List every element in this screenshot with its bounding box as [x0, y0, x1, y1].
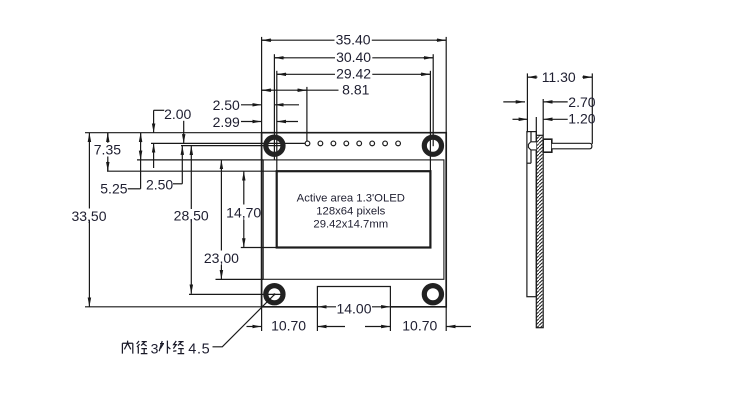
svg-text:23,00: 23,00: [204, 250, 239, 266]
side pin back tab: [528, 142, 536, 150]
wire glass-bottom ext left: [216, 278, 264, 280]
wire side-pcb-back ext up: [542, 99, 544, 135]
svg-text:128x64 pixels: 128x64 pixels: [316, 206, 385, 218]
dimension 14.00: [317, 300, 390, 316]
side pin: [552, 143, 592, 149]
glyph nei: [122, 341, 132, 354]
wire pcb-right ext up: [445, 37, 447, 133]
side display inner edge: [530, 132, 532, 164]
wire hole-left ext up: [273, 54, 275, 160]
dimension 2.50 left: [146, 146, 182, 193]
wire active-left ext up: [276, 71, 278, 171]
wire side-pin-tip ext up: [591, 73, 593, 143]
dimension 8.81: [262, 82, 370, 98]
svg-text:2.50: 2.50: [213, 97, 240, 113]
wire slot-left ext down: [316, 307, 318, 331]
dimension 10.70 right: [365, 318, 471, 334]
bottom-left hole center mark: [273, 293, 275, 295]
wire pcb-top ext left: [85, 132, 262, 134]
svg-text:10.70: 10.70: [402, 318, 437, 334]
wire pcb-left ext up: [261, 37, 263, 133]
glass panel outline: [263, 160, 444, 279]
svg-text:14.00: 14.00: [336, 300, 371, 316]
wire active-bottom ext left: [241, 247, 277, 249]
mounting hole top-right: [424, 137, 441, 154]
PCB outline front view: [262, 133, 447, 307]
dimension 2.70: [503, 94, 595, 110]
wire glass-top ext left: [137, 159, 263, 161]
dimension 30.40: [274, 49, 433, 65]
svg-text:8.81: 8.81: [342, 82, 369, 98]
svg-text:30.40: 30.40: [336, 49, 371, 65]
svg-text:14,70: 14,70: [226, 204, 261, 220]
svg-text:33,50: 33,50: [71, 208, 106, 224]
dimension 1.20: [513, 110, 596, 126]
glyph wai: [159, 341, 170, 354]
dimension 23,00: [204, 160, 239, 279]
bottom slot rect: [317, 287, 390, 307]
wire pcb-bottom ext left: [85, 306, 262, 308]
svg-text:29.42: 29.42: [336, 66, 371, 82]
wire side-pcb-front ext up: [535, 117, 537, 135]
svg-text:Active area 1.3'OLED: Active area 1.3'OLED: [297, 193, 405, 205]
svg-text:1.20: 1.20: [568, 110, 595, 126]
dimension 11.30: [527, 69, 592, 85]
side display panel: [527, 132, 536, 297]
dimension 28,50: [174, 146, 209, 294]
hole note text: 内径3外经4.5: [122, 341, 184, 354]
dimension 5.25: [100, 133, 140, 197]
dimension 2.99: [213, 114, 298, 130]
leader to hole note: [213, 295, 275, 347]
svg-text:7.35: 7.35: [94, 141, 121, 157]
glyph jing2: [173, 341, 184, 354]
pin hole row (8 holes): [305, 141, 400, 146]
side pcb cross-section: [536, 135, 543, 327]
active area label: [297, 193, 405, 231]
svg-text:4.5: 4.5: [188, 341, 210, 357]
wire pcb-right ext down: [445, 307, 447, 331]
glyph jing1: [137, 341, 148, 354]
wire side-left ext up: [526, 73, 528, 132]
mounting hole top-left: [266, 137, 283, 154]
svg-text:2.99: 2.99: [213, 114, 240, 130]
wire active-right ext up: [429, 71, 431, 171]
wire bottom-hole-center ext left: [189, 293, 283, 295]
svg-text:11.30: 11.30: [542, 69, 576, 85]
svg-text:5.25: 5.25: [100, 181, 127, 197]
wire pin1 ext up: [306, 87, 308, 141]
dimension 14,70: [226, 171, 261, 247]
svg-text:2.50: 2.50: [146, 176, 173, 192]
dimension 7.35: [94, 133, 121, 172]
svg-text:35.40: 35.40: [336, 32, 371, 48]
dimension 10.70 left: [247, 318, 346, 334]
dimension 29.42: [277, 66, 431, 82]
mounting hole bottom-right: [424, 286, 441, 303]
dimension 2.00: [154, 106, 192, 168]
wire pin-row ext left: [151, 142, 305, 144]
wire hole-right ext up: [432, 54, 434, 146]
active area rect: [277, 171, 431, 247]
mounting hole bottom-left: [266, 286, 283, 303]
svg-text:3: 3: [151, 340, 159, 356]
dimension 33,50: [71, 133, 106, 307]
wire slot-right ext down: [389, 307, 391, 331]
wire active-top ext left: [107, 170, 277, 172]
svg-text:10.70: 10.70: [271, 318, 306, 334]
svg-text:2.00: 2.00: [164, 106, 191, 122]
dimension 2.50 top: [213, 97, 299, 113]
svg-text:2.70: 2.70: [568, 94, 595, 110]
wire pcb-left ext down: [261, 307, 263, 331]
dimension 35.40: [262, 32, 447, 48]
svg-text:29.42x14.7mm: 29.42x14.7mm: [313, 219, 388, 231]
wire hole-center ext left: [181, 145, 283, 147]
side pin header plastic: [543, 139, 552, 152]
svg-text:28,50: 28,50: [174, 207, 209, 223]
